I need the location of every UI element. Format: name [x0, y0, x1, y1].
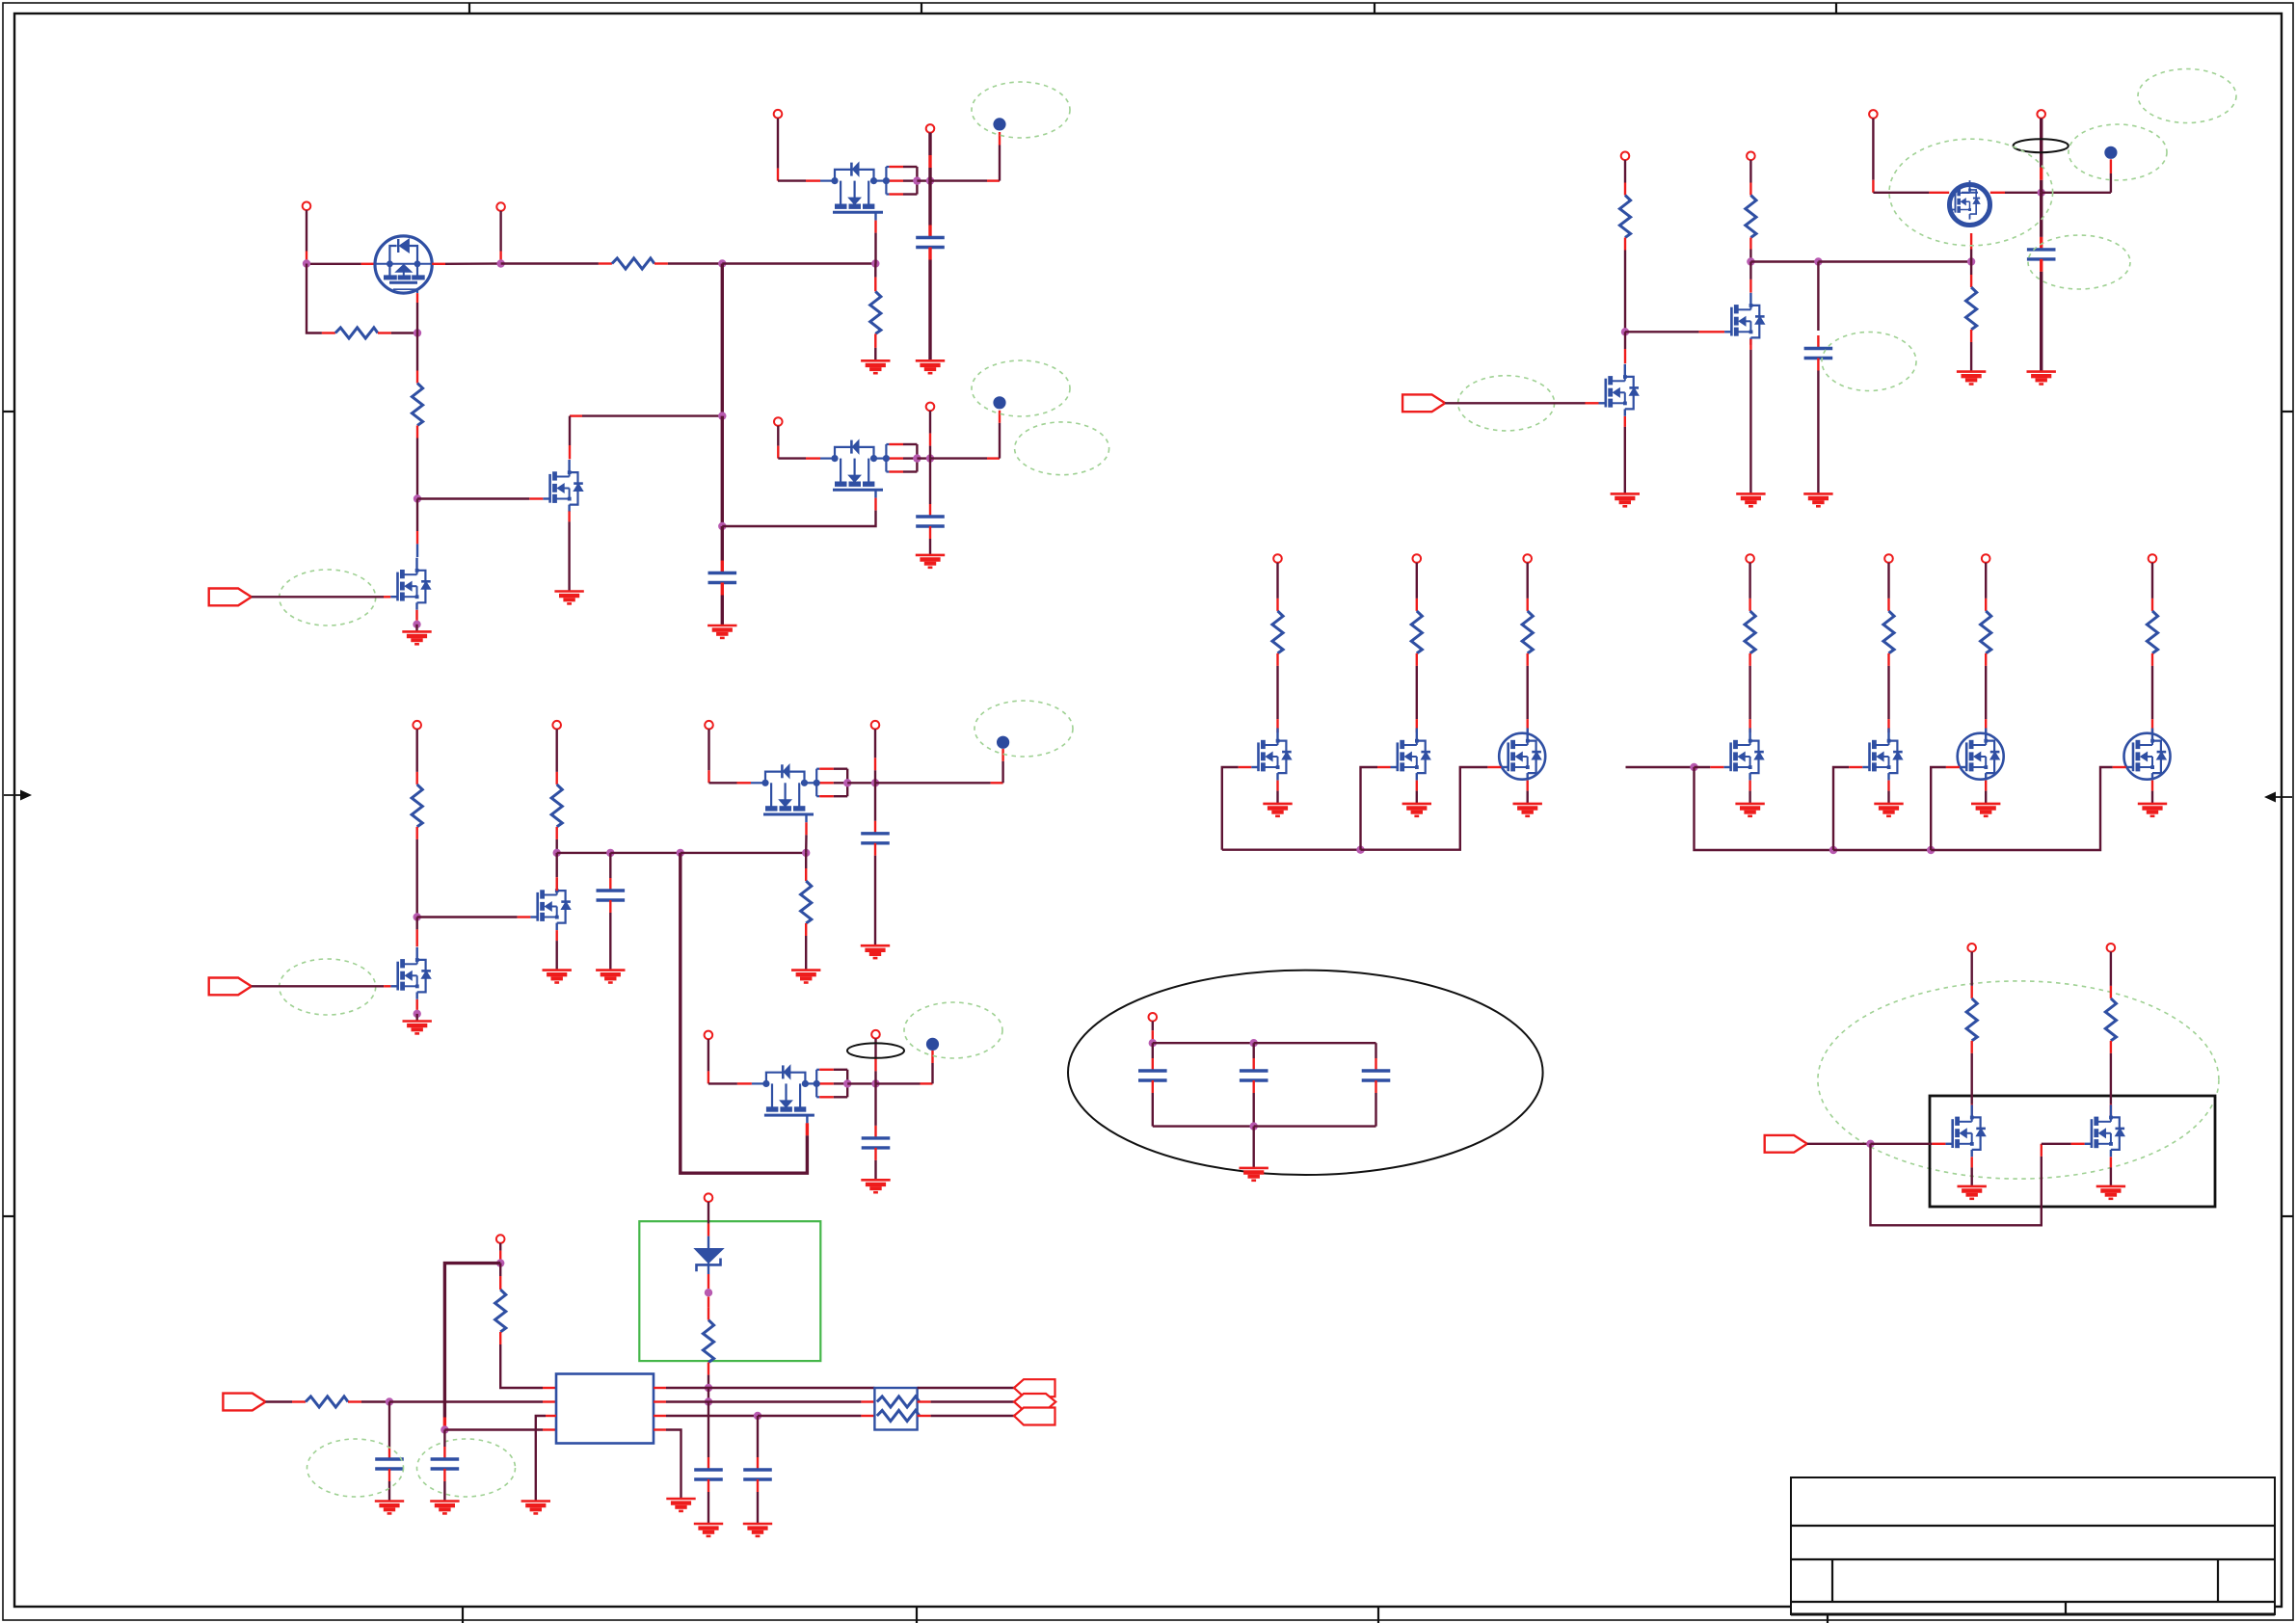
- junction node D1: [926, 176, 934, 184]
- wire P1 stem: [306, 210, 307, 251]
- wire M12 gate route: [681, 853, 808, 1173]
- resistor R6: [551, 785, 562, 827]
- capacitor C6: [862, 1138, 891, 1148]
- transistor Q1 (circled P-MOSFET): [375, 236, 432, 293]
- wire M4 gate red lead: [874, 498, 876, 511]
- power port P10: [413, 721, 421, 730]
- junction node D2: [926, 454, 934, 462]
- capacitor C2: [916, 517, 945, 526]
- resistor R5: [412, 785, 422, 827]
- wire M-P26 gate route: [1931, 767, 1946, 850]
- wire R12 to U1 pin1: [500, 1344, 543, 1388]
- capacitor C10: [375, 1459, 404, 1469]
- wire P14 to M12: [708, 1082, 737, 1084]
- resistor R3: [412, 384, 422, 426]
- title block bottom thick line: [1791, 1613, 2275, 1616]
- wire RP25 bottom red lead: [1887, 653, 1889, 666]
- wire C6 top red lead: [874, 1126, 876, 1138]
- wire node Z1 to M13 gate: [1871, 1143, 1933, 1145]
- resistor RP26: [1981, 611, 1991, 653]
- wire R6 bottom red lead: [556, 827, 558, 839]
- wire P24 stem: [1749, 563, 1750, 599]
- wire P2 stem: [499, 211, 501, 252]
- wire Q1 to node A2: [445, 262, 501, 265]
- wire M9 source to ground: [416, 1014, 418, 1022]
- transistor M11 (P-MOSFET load switch): [820, 163, 886, 221]
- wire P12 to M10: [709, 782, 737, 784]
- port node dot B1: [993, 118, 1005, 130]
- wire C14 top red lead: [1152, 1058, 1154, 1071]
- wire P3 stem red end: [777, 169, 779, 181]
- power port P3: [774, 110, 783, 119]
- wire RP21 bottom red lead: [1276, 653, 1278, 666]
- wire P9a stem: [1872, 119, 1874, 180]
- wire under-route red rise: [2041, 1144, 2042, 1157]
- wire M8 source red lead: [556, 930, 558, 941]
- wire MP22 drain red lead: [1416, 719, 1418, 732]
- wire R13 to node V5: [707, 1375, 709, 1388]
- junction node H1: [871, 1079, 879, 1087]
- ground GND-P25: [1874, 804, 1903, 816]
- wire U1 pin1 red lead: [543, 1387, 556, 1389]
- junction node V3: [441, 1425, 448, 1433]
- transistor MP24: [1723, 729, 1764, 781]
- annotation ellipse E2: [972, 82, 1070, 138]
- wire U1 pin2 red lead: [543, 1400, 556, 1402]
- wire P22 stem red end: [1416, 599, 1418, 611]
- annotation ellipse E7: [904, 1002, 1002, 1058]
- wire node C2 down: [721, 526, 724, 561]
- wire node A3 to node C1: [721, 264, 724, 416]
- wire C14 bottom red lead: [1152, 1080, 1154, 1093]
- ground GND12: [861, 1180, 890, 1192]
- power port P9: [2037, 110, 2045, 119]
- wire node V3 to U1 pin4: [444, 1428, 543, 1430]
- wire pack R14 left red lead: [861, 1400, 874, 1402]
- junction node C1: [718, 412, 726, 419]
- wire node A4 down: [874, 264, 876, 278]
- ground GND-P22: [1402, 804, 1431, 816]
- wire node L2 to M-P24 gate: [1695, 766, 1711, 768]
- title block divider c: [2065, 1602, 2067, 1614]
- top edge zone tick 4: [1835, 3, 1837, 13]
- power port P17: [705, 1193, 713, 1202]
- ground GND-P23: [1513, 804, 1542, 816]
- input flag F4: [223, 1394, 265, 1411]
- ground GND4: [861, 360, 890, 373]
- junction node F4: [802, 849, 810, 857]
- junction node B2: [414, 494, 421, 502]
- wire RP25 to drain: [1887, 666, 1889, 719]
- wire P9 stem red mid: [2040, 168, 2042, 180]
- wire M6 gate red lead: [1699, 331, 1725, 333]
- title block divider b: [2217, 1559, 2219, 1602]
- power port P25: [1884, 554, 1893, 563]
- transistor MP26 (circled): [1958, 729, 2004, 781]
- wire R2 left red lead: [322, 332, 335, 333]
- wire M-P25 gate red lead: [1849, 766, 1862, 768]
- resistor RP23: [1522, 611, 1533, 653]
- wire R10 top red lead: [1970, 275, 1972, 287]
- wire C11 bottom red lead: [443, 1469, 445, 1481]
- wire P25 stem red end: [1887, 599, 1889, 611]
- ground GND-P24: [1735, 804, 1764, 816]
- wire R6 to node F1: [556, 839, 558, 853]
- junction node N3: [1814, 257, 1822, 265]
- ground GND-P21: [1263, 804, 1292, 816]
- wire M5 drain red lead: [416, 531, 418, 544]
- ground GND13: [1240, 1168, 1268, 1181]
- wire M3 drain red lead: [569, 445, 571, 459]
- title block row line 1: [1791, 1525, 2275, 1527]
- junction node A1: [303, 259, 310, 267]
- ground GND18: [2027, 372, 2056, 385]
- junction node F3: [677, 849, 684, 857]
- wire P28 stem: [1970, 952, 1972, 986]
- junction node M9s: [414, 1010, 421, 1018]
- junction node V6: [705, 1397, 712, 1405]
- wire pack R14 right red lead: [918, 1400, 931, 1402]
- wire C10 to ground: [388, 1481, 390, 1502]
- wire node F3 to node F4: [681, 852, 806, 854]
- wire C16 bottom red lead: [1375, 1080, 1376, 1093]
- annotation ellipse E1: [280, 570, 376, 625]
- wire Q2 source to node N4: [1970, 250, 1972, 262]
- transistor MP25: [1862, 729, 1903, 781]
- wire P16 stem: [499, 1243, 501, 1251]
- wire M3 source to ground: [568, 521, 570, 591]
- wire node F1 to node F2: [557, 852, 611, 854]
- wire C11 link: [443, 1430, 445, 1448]
- title block row line 3: [1791, 1601, 2275, 1603]
- annotation ellipse E11: [2138, 69, 2236, 123]
- junction node K2: [1250, 1039, 1258, 1047]
- ground GND5: [916, 360, 945, 373]
- ground GND1: [402, 631, 431, 644]
- wire C10 top red lead: [388, 1447, 390, 1459]
- wire U1 pin2r red lead: [654, 1400, 666, 1402]
- wire R10 to ground: [1970, 342, 1972, 372]
- transistor M3: [543, 460, 583, 512]
- wire RP26 bottom red lead: [1985, 653, 1987, 666]
- wire pack R15 right red lead: [918, 1415, 931, 1417]
- annotation ellipse E12: [2028, 235, 2130, 289]
- resistor RP21: [1272, 611, 1283, 653]
- wire F4 to R11: [266, 1400, 293, 1402]
- junction node N4: [1967, 257, 1975, 265]
- wire C18 to ground: [2040, 272, 2042, 372]
- wire R11 left red lead: [292, 1400, 306, 1402]
- wire pin2 net b: [931, 1400, 1014, 1402]
- junction node E1: [414, 913, 421, 920]
- wire M10 gate to node F4: [805, 835, 808, 853]
- wire P6 stem red mid: [929, 434, 931, 446]
- output connector A1: [1014, 1379, 1055, 1397]
- capacitor C17: [1804, 349, 1833, 359]
- power port P24: [1746, 554, 1754, 563]
- wire P5 stem red end: [777, 446, 779, 459]
- wire R13 bottom red lead: [707, 1363, 709, 1375]
- wire P11 stem red end: [556, 772, 558, 785]
- wire M5 source to ground: [415, 625, 417, 632]
- power port P5: [774, 417, 783, 426]
- ground GND24: [666, 1499, 695, 1511]
- port node dot B4: [997, 736, 1009, 749]
- power port P9a: [1869, 110, 1878, 119]
- wire F2 to M7 gate: [1445, 402, 1585, 404]
- wire R5 bottom red lead: [416, 827, 418, 839]
- ground GND23: [743, 1524, 772, 1536]
- wire M7 source red lead: [1624, 416, 1626, 427]
- junction node V4: [705, 1289, 712, 1296]
- wire R3 bottom red lead: [416, 426, 418, 439]
- wire Q1 gate to node B1: [416, 303, 418, 333]
- transistor MP23 (circled): [1499, 729, 1545, 781]
- wire P15 stem: [874, 1039, 876, 1059]
- annotation ellipse EB3 (black): [2014, 139, 2069, 152]
- transistor M8: [530, 878, 571, 930]
- wire P4 stem red mid: [928, 155, 931, 168]
- wire P26 stem: [1985, 563, 1987, 599]
- wire P13 stem red mid: [874, 758, 876, 770]
- transistor MP27 (circled): [2124, 729, 2171, 781]
- wire node E1 to M9 drain: [416, 918, 418, 930]
- ground GND2: [554, 592, 583, 604]
- wire M13 gate red lead: [1932, 1143, 1945, 1145]
- wire cap bank top rail b: [1254, 1042, 1376, 1044]
- ground GND-P28: [1958, 1186, 1987, 1199]
- wire W1 to node D1: [917, 179, 930, 181]
- wire C2 bottom red lead: [929, 526, 931, 539]
- power port P15: [871, 1030, 880, 1039]
- wire P14 stem red end: [707, 1071, 709, 1083]
- junction node C2: [718, 522, 726, 530]
- wire left vert red end: [443, 1418, 446, 1430]
- junction node F1: [553, 849, 561, 857]
- power port P8: [1747, 152, 1755, 161]
- resistor RN1a: [877, 1397, 920, 1407]
- port node dot B5: [926, 1038, 939, 1051]
- capacitor C14: [1138, 1071, 1167, 1080]
- wire node F4 down: [805, 853, 807, 868]
- wire M11 gate red lead: [874, 221, 876, 233]
- parallel jumper bundle W2: [883, 444, 921, 472]
- resistor R2: [335, 328, 378, 338]
- wire pin1 net a: [666, 1387, 874, 1389]
- wire C16 bottom link: [1375, 1093, 1376, 1127]
- resistor pack RN1 box: [874, 1388, 917, 1430]
- wire MP24 source red lead: [1749, 781, 1750, 791]
- wire P9 stem end: [2040, 180, 2042, 193]
- power port P27: [2149, 554, 2157, 563]
- transistor Q2 thick circle: [1950, 185, 1990, 226]
- wire M7 drain red lead: [1624, 349, 1626, 363]
- wire R3 top red lead: [416, 371, 418, 384]
- wire M3 drain from node C1: [582, 414, 722, 416]
- wire C14 bottom link: [1152, 1093, 1154, 1127]
- bottom edge zone tick 4: [1827, 1607, 1829, 1623]
- wire P5 to M4: [778, 457, 806, 459]
- wire node V5 link: [707, 1388, 709, 1402]
- wire B3 stem: [2110, 173, 2112, 193]
- wire node B1 down: [416, 333, 418, 371]
- wire R7 top red lead: [805, 868, 807, 881]
- wire node K3 to ground: [1252, 1127, 1254, 1168]
- capacitor C1: [916, 238, 945, 248]
- resistor RP24: [1745, 611, 1755, 653]
- wire MP26 drain red lead: [1985, 719, 1987, 732]
- resistor R13: [703, 1320, 713, 1363]
- junction node V2: [496, 1259, 504, 1266]
- wire P9a stem red end: [1872, 180, 1874, 193]
- wire P12 stem red end: [707, 770, 709, 783]
- annotation ellipse E16: [417, 1439, 516, 1497]
- title block divider a: [1831, 1559, 1833, 1602]
- wire B1 corner red lead: [987, 179, 1000, 181]
- wire U1 pin3 to ground: [536, 1416, 546, 1502]
- wire M9 drain red lead: [416, 929, 418, 946]
- junction node K3: [1250, 1122, 1258, 1130]
- wire node F1 to M8 drain: [556, 853, 558, 877]
- wire M-P21 gate route: [1222, 767, 1239, 850]
- wire Q2 left red lead: [1929, 192, 1949, 194]
- wire MP28 source to ground: [1970, 1167, 1972, 1186]
- wire U1 pin1r red lead: [654, 1387, 666, 1389]
- wire P13 stem end: [874, 770, 876, 783]
- annotation ellipse E15: [307, 1439, 404, 1497]
- wire M6 drain red lead: [1749, 279, 1751, 293]
- ground GND8: [596, 971, 625, 983]
- wire F5 to node Z1: [1807, 1143, 1871, 1145]
- wire node N5 to B3 corner: [2042, 192, 2111, 194]
- wire node N2 to M6 drain: [1749, 262, 1751, 279]
- wire B2 stem red end: [999, 411, 1001, 423]
- wire node A1 to Q1: [310, 263, 361, 265]
- junction node A4: [871, 259, 879, 267]
- annotation ellipse E3: [972, 360, 1070, 416]
- wire R4 top red lead: [874, 278, 876, 292]
- wire node D1 to B1 stem: [930, 179, 987, 181]
- wire P21 stem: [1276, 563, 1278, 599]
- wire P15 stem red mid: [874, 1058, 876, 1071]
- wire MP29 drain red lead: [2110, 1104, 2112, 1118]
- resistor R9: [1746, 196, 1756, 238]
- junction node A2: [496, 259, 504, 267]
- left edge centre arrow: [4, 790, 32, 801]
- wire B1 stem red end: [999, 132, 1001, 146]
- wire P2 stem red end: [499, 252, 501, 264]
- wire B4 stem red end: [1001, 749, 1003, 761]
- resistor RP27: [2147, 611, 2157, 653]
- wire R5 to node E1: [416, 839, 418, 918]
- transistor M10 (P-MOSFET load switch): [751, 764, 816, 822]
- wire P7 stem: [1624, 160, 1626, 182]
- wire M-P21 gate red lead: [1239, 766, 1252, 768]
- wire P21 stem red end: [1276, 599, 1278, 611]
- wire C10 link: [388, 1402, 390, 1448]
- wire P13 stem: [874, 730, 876, 758]
- wire R7 to ground: [805, 936, 807, 971]
- wire R9 bottom red lead: [1749, 238, 1751, 250]
- transistor M5: [390, 558, 431, 610]
- wire MP21 source red lead: [1276, 781, 1278, 791]
- wire MP29 source to ground: [2110, 1167, 2112, 1186]
- wire U1 pin3r red lead: [654, 1415, 666, 1417]
- resistor R4: [870, 291, 881, 333]
- wire C5 bottom red lead: [874, 843, 876, 856]
- wire P10 stem red end: [416, 772, 418, 785]
- wire C1 bottom red lead: [928, 248, 931, 260]
- junction node A3: [718, 259, 726, 267]
- wire C13 link: [757, 1416, 759, 1457]
- wire P14 stem: [707, 1039, 709, 1071]
- ground GND-P27: [2138, 804, 2167, 816]
- wire MP25 drain red lead: [1887, 719, 1889, 732]
- wire node C1 to node C2: [721, 416, 724, 526]
- wire R12 bottom red lead: [499, 1332, 501, 1344]
- wire node G1 to C5: [874, 783, 876, 821]
- transistor Q2 (circled, thick): [1950, 180, 1980, 220]
- capacitor C3: [708, 573, 737, 583]
- ground GND17: [1957, 372, 1986, 385]
- wire MP26 source red lead: [1985, 781, 1987, 791]
- bottom edge zone tick 3: [1377, 1607, 1379, 1623]
- wire RP28 bottom red lead: [1970, 1041, 1972, 1053]
- ground GND-P26: [1971, 804, 2000, 816]
- wire C12 bottom red lead: [707, 1479, 709, 1492]
- wire R3 to node B2: [416, 439, 418, 499]
- wire R11 to node V1: [361, 1400, 389, 1402]
- wire RP22 to drain: [1416, 666, 1418, 719]
- wire R8 bottom red lead: [1624, 238, 1626, 251]
- wire C11 top red lead: [443, 1447, 445, 1459]
- wire M12 source red lead: [737, 1082, 752, 1084]
- wire P17 stem red end: [707, 1224, 709, 1237]
- ground GND14: [1611, 493, 1640, 506]
- wire RP23 bottom red lead: [1526, 653, 1528, 666]
- wire U1 pin4r to ground: [666, 1430, 681, 1500]
- wire P8 stem: [1749, 160, 1751, 182]
- wire P29 stem red end: [2110, 986, 2112, 998]
- ground GND10: [403, 1022, 432, 1034]
- annotation ellipse E13: [1822, 333, 1916, 391]
- junction node V1: [386, 1397, 393, 1405]
- wire C3 bottom red lead: [721, 583, 724, 596]
- wire P12 stem: [707, 730, 709, 771]
- wire RP24 to drain: [1749, 666, 1750, 719]
- wire node D2 to C2cap: [929, 459, 931, 504]
- wire C18 bottom red lead: [2040, 259, 2042, 272]
- capacitor C13: [743, 1470, 772, 1479]
- wire node E1 to M8 gate: [417, 916, 518, 918]
- junction node N2: [1747, 257, 1754, 265]
- wire P29 stem: [2110, 952, 2112, 986]
- wire R4 bottom red lead: [874, 333, 876, 348]
- resistor RP25: [1883, 611, 1894, 653]
- wire M6 source to ground: [1749, 350, 1751, 494]
- wire MP23 source to ground: [1526, 791, 1528, 804]
- power port P13: [871, 721, 880, 730]
- wire M3 gate red lead: [529, 497, 543, 499]
- wire node F2 to node F3: [610, 852, 681, 854]
- wire B2 corner red lead: [987, 457, 1000, 459]
- wire C17 bottom red lead: [1817, 359, 1819, 371]
- power port P4: [926, 124, 935, 133]
- bottom edge zone tick 2: [916, 1607, 918, 1623]
- output connector A2: [1014, 1394, 1055, 1411]
- port node dot B2: [993, 396, 1005, 409]
- annotation ellipse E4: [1015, 422, 1109, 475]
